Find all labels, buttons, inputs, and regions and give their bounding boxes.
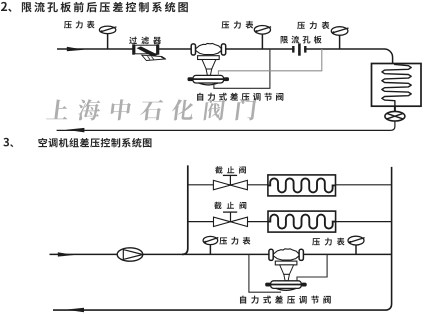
wire supply pipe top <box>57 49 393 64</box>
stop valve SV2 <box>214 212 248 226</box>
flow arrow left (bottom return) <box>66 308 84 313</box>
valve V2 self-operated DP valve <box>265 249 307 291</box>
label title 2 <box>1 2 188 13</box>
wire branch 2 <box>188 221 392 223</box>
impulse line upstream tap to V2 <box>249 254 281 292</box>
label 过滤器 F1 <box>129 37 161 45</box>
flow arrow right (bottom supply) <box>58 252 74 256</box>
wire branch 1 <box>188 184 392 186</box>
pump P1 <box>117 248 143 261</box>
strainer F1 <box>132 44 165 60</box>
impulse line upstream tap to V1 lower chamber <box>214 49 270 88</box>
pressure gauge PG3 <box>331 27 348 49</box>
orifice plate RO1 <box>293 43 305 55</box>
label 压力表 PG5 <box>312 238 344 246</box>
flow arrow right (top supply) <box>67 47 84 52</box>
pressure gauge PG2 <box>254 26 271 50</box>
label 自力式差压调节阀 V1 <box>197 93 283 101</box>
impulse line downstream tap to V1 upper chamber (gray) <box>218 49 321 75</box>
heat exchanger HX1 shell <box>372 64 422 107</box>
drain valve XV1 <box>385 111 405 121</box>
label 截止阀 SV2 <box>214 202 246 209</box>
label 截止阀 SV1 <box>215 166 246 173</box>
label 压力表 PG3 <box>297 21 329 29</box>
label title 3 <box>3 138 151 148</box>
wire supply pipe bottom <box>50 253 392 255</box>
heating coil HC2 <box>268 211 336 232</box>
flow arrow left (top return) <box>66 128 85 132</box>
watermark 上海中石化阀门 <box>46 99 257 120</box>
label 压力表 PG2 <box>221 21 253 29</box>
label 自力式差压调节阀 V2 <box>240 296 331 304</box>
label 限流孔板 RO1 <box>281 36 322 44</box>
wire supply riser <box>182 165 188 254</box>
wire return pipe top <box>57 121 395 130</box>
label 压力表 PG1 <box>64 21 95 29</box>
impulse line downstream tap to V2 <box>297 254 327 280</box>
heat exchanger HX1 coil <box>382 64 411 107</box>
label 压力表 PG4 <box>219 237 250 245</box>
pressure gauge PG5 <box>348 236 365 254</box>
stop valve SV1 <box>213 175 247 189</box>
drain valve XV1 stem <box>394 106 396 111</box>
valve V1 self-operated DP valve <box>188 43 230 85</box>
pressure gauge PG4 <box>203 236 218 254</box>
heating coil HC1 <box>268 175 336 196</box>
wire return header right <box>53 167 392 310</box>
pressure gauge PG1 <box>99 26 116 49</box>
